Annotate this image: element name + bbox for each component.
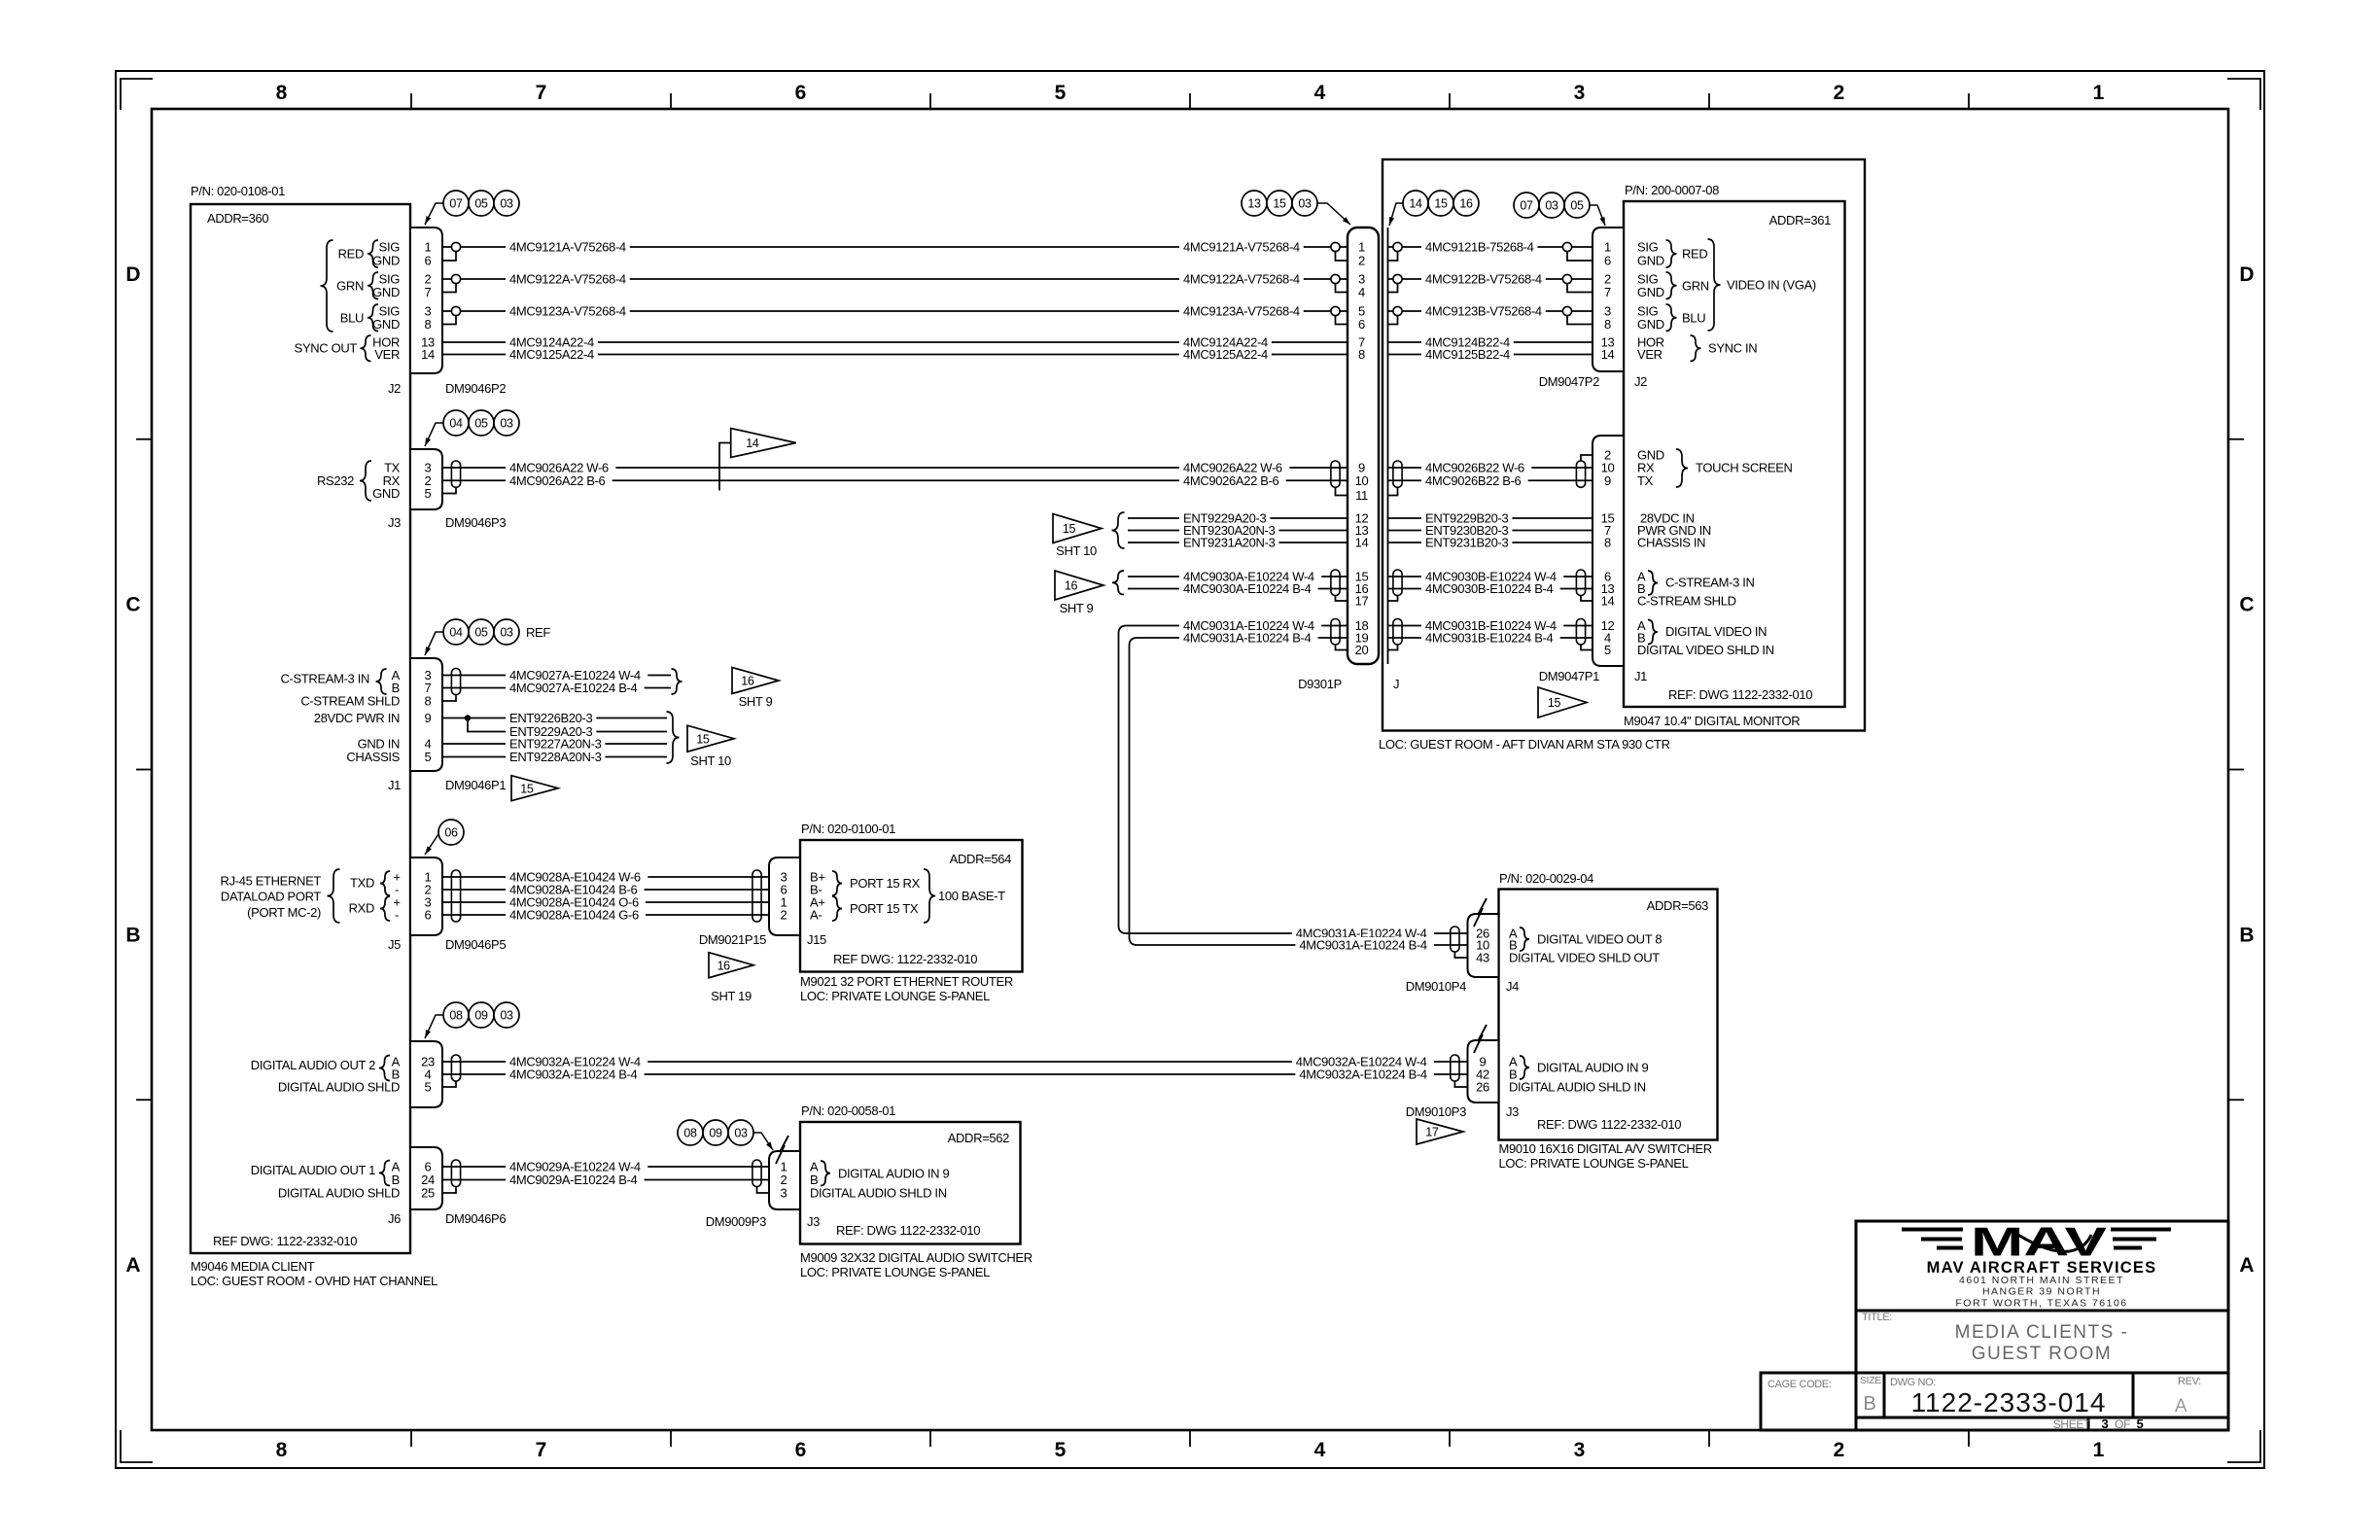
bubbles 07 05 03 for J2 [443,191,469,216]
brace to SHT 10 [667,712,680,763]
svg-text:C: C [125,594,140,616]
sheet ref triangle 14 with stub [719,443,731,491]
wire ENT9227A20N-3 [442,743,667,745]
wire ENT9228A20N-3 [442,756,667,758]
leader to J3 [425,423,443,446]
brace audio out 1 [379,1161,390,1186]
svg-text:4MC9123A-V75268-4: 4MC9123A-V75268-4 [509,304,626,319]
svg-text:GND: GND [372,254,400,268]
svg-text:DIGITAL VIDEO OUT 8: DIGITAL VIDEO OUT 8 [1537,932,1662,947]
svg-text:5: 5 [2137,1417,2144,1431]
svg-text:J5: J5 [388,937,401,952]
svg-text:RXD: RXD [349,901,374,916]
shield pigtail into M9010 J3 pin 26 [1454,1081,1467,1087]
shield pigtail at monitor (video) [1581,645,1592,650]
svg-text:P/N: 020-0058-01: P/N: 020-0058-01 [801,1103,895,1118]
twisted pair at M9010 J4 [1451,927,1459,952]
svg-text:11: 11 [1355,488,1368,503]
brace port15 rx [832,871,842,895]
bubbles 07 03 05 for monitor J2 [1514,192,1539,218]
brace ethernet group [328,869,340,923]
svg-text:28VDC PWR IN: 28VDC PWR IN [314,711,400,725]
svg-text:03: 03 [1298,197,1312,211]
svg-text:5: 5 [425,486,432,501]
shield stub at J3 [442,487,456,493]
svg-text:8: 8 [1604,536,1611,550]
svg-text:HANGER 39 NORTH: HANGER 39 NORTH [1982,1286,2101,1298]
triangle 15 SHT 10 [1053,514,1102,543]
svg-text:LOC: GUEST ROOM - AFT DIV: LOC: GUEST ROOM - AFT DIVAN ARM STA 930 … [1379,737,1670,752]
svg-text:14: 14 [1409,197,1422,211]
twisted pair at J6 upper [451,1055,460,1081]
wire 4MC9125B22-4 [1388,354,1593,356]
shield stub at J6 lower [442,1187,456,1194]
svg-text:4MC9031A-E10224 B-4: 4MC9031A-E10224 B-4 [1183,631,1312,646]
twisted pair symbol right of J [1393,461,1402,487]
svg-text:CHASSIS IN: CHASSIS IN [1637,536,1705,550]
triangle 17 [1417,1119,1463,1144]
svg-text:B: B [125,924,140,946]
twisted pair symbol at D9301P [1331,461,1340,487]
corner trim mark bottom-left [121,1430,153,1462]
svg-text:15: 15 [520,782,534,795]
leader to J6 [425,1015,443,1038]
triangle 15 below DM9046P1 [511,776,558,801]
brace to SHT 9 [672,669,682,694]
brace video (monitor) [1648,620,1658,645]
svg-text:SYNC IN: SYNC IN [1708,341,1757,356]
wire 4MC9030A-E10224 B-4 [1128,588,1347,590]
twisted pair at J1 [451,669,460,695]
svg-text:2: 2 [1834,82,1845,104]
zone tick bottom [1449,1430,1451,1447]
svg-text:LOC: PRIVATE LOUNGE S-PANEL: LOC: PRIVATE LOUNGE S-PANEL [800,1265,990,1279]
svg-text:P/N: 020-0108-01: P/N: 020-0108-01 [191,184,285,198]
shield pigtail pin 20 [1336,645,1348,650]
wire 4MC9031B-E10224 B-4 [1388,637,1593,639]
svg-text:ENT9231B20-3: ENT9231B20-3 [1425,536,1509,550]
svg-text:TXD: TXD [350,876,374,891]
svg-text:J3: J3 [388,515,401,530]
svg-text:4MC9123B-V75268-4: 4MC9123B-V75268-4 [1425,304,1542,319]
svg-text:2: 2 [781,908,787,923]
shield pigtail into M9009 pin 3 [757,1187,770,1194]
brace VIDEO IN VGA [1708,239,1721,331]
bubbles 14 15 16 for J [1403,191,1428,216]
brace BLU pair [367,304,378,332]
wire 4MC9125A22-4 [442,354,1347,356]
svg-text:J1: J1 [1634,669,1647,683]
svg-text:1: 1 [2093,82,2105,104]
svg-text:8: 8 [1604,317,1611,332]
wire 4MC9026A22 B-6 [442,479,1347,481]
svg-text:1: 1 [2093,1439,2105,1461]
svg-text:SIG: SIG [1637,240,1659,255]
svg-text:7: 7 [536,82,547,104]
wire 4MC9031B-E10224 W-4 [1388,625,1593,627]
svg-text:07: 07 [1520,199,1533,213]
svg-text:1: 1 [1358,240,1365,255]
svg-text:C: C [2239,594,2254,616]
brace RXD [380,896,390,921]
svg-text:VER: VER [374,347,400,362]
connector J3 DM9009P3 [769,1151,800,1209]
svg-text:CHASSIS: CHASSIS [346,750,400,764]
svg-text:4MC9027A-E10224 B-4: 4MC9027A-E10224 B-4 [509,681,638,695]
svg-text:25: 25 [421,1186,435,1201]
svg-text:4MC9125A22-4: 4MC9125A22-4 [1183,347,1268,362]
brace RGB group [321,240,333,332]
title block horizontal line under logo [1856,1310,2228,1312]
svg-text:16: 16 [717,959,731,972]
svg-text:DIGITAL AUDIO SHLD: DIGITAL AUDIO SHLD [278,1186,400,1201]
svg-text:26: 26 [1476,1080,1489,1095]
svg-text:6: 6 [795,1439,807,1461]
shield stub at monitor [1567,316,1592,325]
brace SYNC IN [1691,335,1701,362]
shield stub at J right [1388,487,1398,495]
svg-text:REF: DWG 1122-2332-010: REF: DWG 1122-2332-010 [1668,687,1812,702]
wire ENT9229A20-3 [1128,517,1347,519]
svg-text:VER: VER [1637,347,1662,362]
wire 4MC9029A-E10224 B-4 [442,1179,769,1181]
svg-text:TOUCH SCREEN: TOUCH SCREEN [1696,461,1793,475]
svg-text:3: 3 [1574,1439,1586,1461]
svg-text:DM9010P4: DM9010P4 [1406,979,1466,994]
brace audio out 2 [379,1056,390,1081]
svg-text:J3: J3 [1506,1104,1519,1119]
svg-text:04: 04 [449,626,463,640]
svg-text:07: 07 [449,197,463,211]
zone tick left [136,769,152,771]
wire 4MC9032A-E10224 W-4 [442,1061,1468,1063]
svg-text:REF: DWG 1122-2332-010: REF: DWG 1122-2332-010 [836,1223,980,1238]
triangle 16 SHT 19 [709,953,753,978]
svg-text:4MC9030B-E10224 B-4: 4MC9030B-E10224 B-4 [1425,581,1554,596]
svg-text:17: 17 [1355,594,1369,609]
svg-text:DM9021P15: DM9021P15 [699,932,766,947]
zone tick right [2228,1099,2244,1101]
svg-text:D9301P: D9301P [1298,677,1342,691]
brace TXD [380,871,390,895]
svg-text:8: 8 [425,317,432,332]
brace audio in 9 (M9010) [1520,1056,1529,1079]
svg-text:09: 09 [474,1009,488,1023]
connector J3 DM9010P3 [1468,1040,1499,1102]
zone tick left [136,1099,152,1101]
triangle 15 SHT 10 (left) [687,725,734,752]
unit M9046 MEDIA CLIENT box [191,204,410,1253]
svg-text:REF DWG: 1122-2332-010: REF DWG: 1122-2332-010 [213,1234,357,1248]
svg-text:DIGITAL AUDIO IN 9: DIGITAL AUDIO IN 9 [1537,1061,1648,1075]
svg-text:6: 6 [1358,317,1365,332]
unit M9010 AV SWITCHER box [1499,890,1718,1140]
twisted pair at monitor (video) [1576,619,1585,646]
svg-text:ENT9226B20-3: ENT9226B20-3 [509,711,593,725]
svg-text:M9010 16X16 DIGITAL A/V SW: M9010 16X16 DIGITAL A/V SWITCHER [1499,1141,1712,1156]
svg-text:5: 5 [425,1080,432,1095]
twisted pair at J6 lower [451,1160,460,1187]
svg-text:B: B [2239,924,2254,946]
svg-text:DM9009P3: DM9009P3 [706,1214,766,1229]
brace GRN (monitor) [1666,272,1677,299]
brace BLU (monitor) [1666,304,1677,332]
wire 4MC9031A-E10224 W-4 (D9301P to M9010 J4) [1119,626,1468,934]
svg-text:A: A [2175,1396,2187,1417]
svg-text:SHEET: SHEET [2053,1417,2091,1431]
svg-text:GND: GND [1637,254,1664,268]
leader to D9301P [1317,203,1350,225]
svg-text:C-STREAM SHLD: C-STREAM SHLD [1637,594,1736,609]
shield pigtail into pin 11 [1336,487,1348,495]
break bolt on DM9009P3 [776,1136,788,1164]
svg-text:3: 3 [781,1186,787,1201]
svg-text:DATALOAD PORT: DATALOAD PORT [221,890,321,904]
title block outline [1856,1221,2228,1430]
svg-text:P/N: 020-0029-04: P/N: 020-0029-04 [1499,871,1593,886]
leader to J2 [425,203,443,225]
wire 4MC9028A-E10424 G-6 [442,914,769,916]
svg-text:8: 8 [276,82,288,104]
wire 4MC9032A-E10224 B-4 [442,1073,1468,1075]
svg-text:LOC: PRIVATE LOUNGE S-PANEL: LOC: PRIVATE LOUNGE S-PANEL [1499,1156,1689,1171]
shield stub at J2 [442,284,456,293]
svg-text:M9009 32X32 DIGITAL AUDIO: M9009 32X32 DIGITAL AUDIO SWITCHER [800,1250,1032,1265]
bulkhead connector J line [1387,227,1389,664]
twisted pair at M9009 [752,1160,761,1187]
zone tick right [2228,438,2244,440]
title block horizontal line above sheet row [1856,1417,2228,1419]
svg-text:J3: J3 [807,1214,820,1229]
svg-text:03: 03 [1545,199,1558,213]
svg-text:BLU: BLU [340,310,364,325]
brace SYNC OUT pair [361,335,371,362]
wire 4MC9030B-E10224 B-4 [1388,588,1593,590]
svg-text:J1: J1 [388,778,401,792]
svg-text:PORT 15 TX: PORT 15 TX [850,901,919,916]
unit M9009 AUDIO SWITCHER box [800,1122,1021,1244]
svg-text:6: 6 [1604,254,1611,268]
shield stub right of J (video) [1388,645,1398,650]
connector J6 lower rows on M9046 (DIGITAL AUDIO OUT 1) [410,1147,442,1209]
zone tick top [410,93,412,109]
bubble 06 for J5 [438,820,464,845]
bubbles 08 09 03 for J6 [443,1002,469,1028]
svg-text:4: 4 [1314,1439,1326,1461]
svg-text:DIGITAL AUDIO OUT 1: DIGITAL AUDIO OUT 1 [251,1163,375,1177]
svg-text:(PORT MC-2): (PORT MC-2) [247,905,321,920]
svg-text:DM9010P3: DM9010P3 [1406,1104,1466,1119]
brace port15 tx [832,896,842,921]
bubbles 08 09 03 for M9009 [678,1120,703,1145]
zone tick bottom [410,1430,412,1447]
bubbles 04 05 03 REF for J1 [443,619,469,645]
svg-text:4MC9031B-E10224 B-4: 4MC9031B-E10224 B-4 [1425,631,1554,646]
zone tick top [1189,93,1191,109]
svg-text:4MC9028A-E10424 G-6: 4MC9028A-E10424 G-6 [509,908,639,923]
svg-text:7: 7 [1604,285,1611,299]
svg-text:RED: RED [1682,247,1707,262]
svg-text:GRN: GRN [336,278,364,293]
svg-text:15: 15 [1063,522,1076,536]
brace C-STREAM pair [376,669,387,694]
svg-text:M9047 10.4" DIGITAL MONITOR: M9047 10.4" DIGITAL MONITOR [1624,714,1800,728]
svg-text:17: 17 [1425,1126,1439,1139]
wire 4MC9028A-E10424 W-6 [442,876,769,878]
shield stub at D9301P [1336,284,1348,293]
zone tick top [929,93,931,109]
zone tick bottom [1189,1430,1191,1447]
svg-text:03: 03 [500,197,513,211]
wire 4MC9123B-V75268-4 (J to monitor) [1388,310,1593,312]
connector J1 DM9046P1 on M9046 [410,658,442,771]
svg-text:16: 16 [1065,579,1078,593]
wire 4MC9121B-75268-4 (J to monitor) [1388,246,1593,248]
svg-text:TITLE:: TITLE: [1862,1312,1892,1323]
svg-text:9: 9 [1604,473,1611,488]
wire 4MC9026B22 B-6 [1388,479,1593,481]
svg-text:DM9047P1: DM9047P1 [1539,669,1599,683]
svg-text:J2: J2 [388,381,401,396]
svg-text:BLU: BLU [1682,310,1705,325]
svg-text:J4: J4 [1506,979,1519,994]
shield pigtail at monitor (c-stream) [1581,596,1592,602]
unit M9021 ETHERNET ROUTER box [800,840,1023,972]
svg-text:4MC9026A22 B-6: 4MC9026A22 B-6 [509,473,606,488]
connector J1 DM9047P1 on M9047 [1592,436,1624,666]
svg-text:MEDIA CLIENTS -: MEDIA CLIENTS - [1955,1322,2129,1343]
svg-text:SIZE: SIZE [1860,1375,1881,1386]
svg-text:A: A [2239,1254,2254,1277]
svg-text:5: 5 [1604,643,1611,657]
svg-text:8: 8 [1358,347,1365,362]
wire 4MC9121A-V75268-4 (M9046 J2 to D9301P) [442,246,1347,248]
triangle 16 SHT 9 (left) [732,668,779,694]
connector J6 upper rows on M9046 (DIGITAL AUDIO OUT 2) [410,1041,442,1107]
svg-text:15: 15 [1548,696,1561,710]
break bolt on DM9010P3 [1474,1025,1487,1053]
svg-text:LOC: GUEST ROOM - OVHD HA: LOC: GUEST ROOM - OVHD HAT CHANNEL [191,1274,437,1288]
svg-text:3: 3 [1574,82,1586,104]
brace RED pair [367,240,378,267]
svg-text:M9046 MEDIA CLIENT: M9046 MEDIA CLIENT [191,1259,315,1274]
zone tick top [1708,93,1710,109]
svg-text:J6: J6 [388,1211,401,1226]
svg-text:DIGITAL AUDIO SHLD IN: DIGITAL AUDIO SHLD IN [1509,1080,1646,1095]
zone tick bottom [1708,1430,1710,1447]
svg-text:43: 43 [1476,951,1489,965]
bubbles 13 15 03 for D9301P [1242,191,1267,216]
wire 4MC9027A-E10224 W-4 [442,675,671,677]
svg-text:4601 NORTH MAIN STREET: 4601 NORTH MAIN STREET [1959,1275,2124,1286]
triangle 15 below DM9047P1 [1538,687,1587,717]
svg-text:CAGE CODE:: CAGE CODE: [1767,1379,1832,1390]
svg-text:09: 09 [709,1127,722,1140]
wire 4MC9028A-E10424 O-6 [442,901,769,903]
shield pigtail into M9010 J4 pin 43 [1454,952,1467,958]
leader to monitor J2 [1590,205,1605,226]
break bolt on DM9010P4 [1474,898,1487,927]
svg-text:DIGITAL VIDEO SHLD IN: DIGITAL VIDEO SHLD IN [1637,643,1774,657]
twisted pair at M9010 J3 [1451,1055,1459,1081]
svg-text:DIGITAL AUDIO SHLD: DIGITAL AUDIO SHLD [278,1080,400,1095]
svg-text:03: 03 [500,417,513,431]
corner trim mark bottom-right [2227,1430,2260,1462]
svg-text:16: 16 [1459,197,1473,211]
svg-text:05: 05 [1570,199,1584,213]
shield stub at monitor [1567,284,1592,293]
svg-text:3: 3 [2102,1417,2109,1431]
connector J15 DM9021P15 [769,857,800,935]
leader to J1 [425,632,443,655]
twisted pair symbol at J3 [451,461,460,487]
connector J2 DM9046P2 on M9046 [410,227,442,373]
svg-text:6: 6 [795,82,807,104]
zone tick bottom [1968,1430,1970,1447]
svg-text:ADDR=361: ADDR=361 [1769,213,1831,227]
svg-text:14: 14 [1601,594,1615,609]
svg-text:5: 5 [1055,1439,1067,1461]
svg-text:GND: GND [372,285,400,299]
svg-text:4MC9030A-E10224 B-4: 4MC9030A-E10224 B-4 [1183,581,1312,596]
brace video out 8 [1520,927,1529,951]
shield stub right of J (c-stream) [1388,596,1398,602]
svg-text:1: 1 [1604,240,1611,255]
svg-text:8: 8 [425,694,432,709]
triangle 16 SHT 9 [1055,571,1103,600]
wire 4MC9026A22 W-6 [442,467,1347,469]
svg-text:REV:: REV: [2178,1376,2201,1387]
svg-text:4MC9026A22 B-6: 4MC9026A22 B-6 [1183,473,1279,488]
junction dot [465,715,471,720]
wire 4MC9031A-E10224 B-4 (D9301P to M9010 J4) [1130,638,1468,945]
svg-text:SHT 9: SHT 9 [1060,601,1094,615]
branch wire ENT9229A20-3 [468,718,667,732]
shield stub at J [1388,284,1398,293]
svg-text:2: 2 [1834,1439,1845,1461]
twisted pair right of J (video) [1393,619,1402,646]
wire 4MC9124A22-4 [442,341,1347,343]
svg-text:GND: GND [1637,285,1664,299]
svg-text:RED: RED [338,247,364,262]
svg-text:7: 7 [425,285,432,299]
brace TOUCH SCREEN [1676,449,1688,487]
connector D9301P [1347,227,1379,664]
wire 4MC9027A-E10224 B-4 [442,687,671,689]
svg-text:16: 16 [741,675,754,688]
svg-text:TX: TX [1637,473,1654,488]
svg-text:C-STREAM-3 IN: C-STREAM-3 IN [280,672,369,686]
svg-text:08: 08 [683,1127,697,1140]
svg-text:PORT 15 RX: PORT 15 RX [850,876,921,891]
svg-text:D: D [125,263,140,286]
inner sheet border [152,109,2228,1430]
twisted pair symbol c-stream at D9301P [1331,570,1340,596]
svg-text:14: 14 [1355,536,1369,550]
shield stub at J2 [442,316,456,325]
leader to M9009 J3 [753,1133,773,1150]
svg-text:REF: REF [526,625,550,640]
svg-text:DM9046P5: DM9046P5 [445,937,506,952]
svg-text:ADDR=563: ADDR=563 [1647,898,1708,913]
zone tick bottom [670,1430,672,1447]
svg-text:06: 06 [444,826,458,840]
corner trim mark top-right [2227,79,2260,110]
svg-text:03: 03 [500,1009,513,1023]
svg-text:DM9046P2: DM9046P2 [445,381,506,396]
svg-text:6: 6 [425,254,432,268]
assembly outline box (guest room aft divan) [1382,159,1865,731]
